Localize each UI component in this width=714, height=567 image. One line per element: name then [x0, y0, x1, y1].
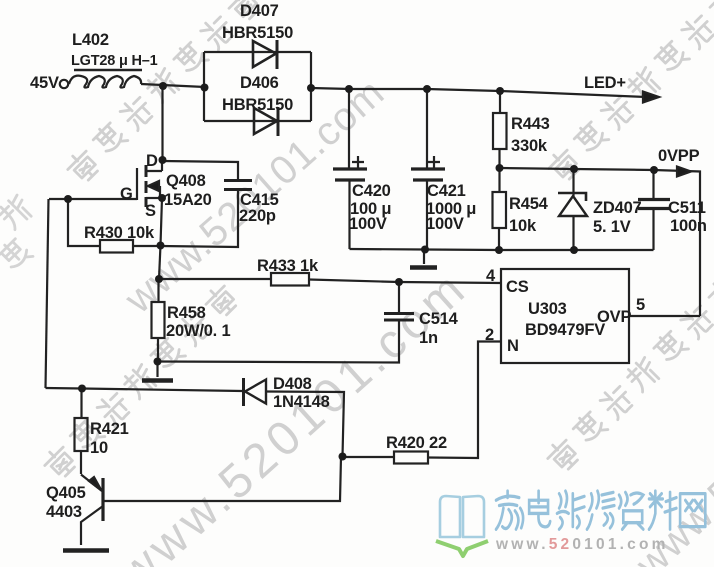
svg-text:4403: 4403	[46, 503, 82, 521]
svg-text:100n: 100n	[670, 217, 707, 235]
wire R420 line	[343, 342, 502, 459]
capacitor C415	[224, 181, 252, 190]
svg-text:CS: CS	[506, 278, 529, 296]
resistor R454	[493, 192, 507, 228]
svg-text:C511: C511	[668, 199, 706, 217]
wire inductor to drain node	[141, 84, 205, 87]
node 45V input terminal	[60, 80, 68, 88]
wire left rail (gate drive)	[46, 199, 49, 388]
junction R458 bottom	[154, 358, 162, 366]
resistor R454 leads	[498, 168, 501, 250]
resistor R420	[394, 452, 428, 464]
wire rail C420 to C421	[349, 88, 427, 90]
ground under Q405	[63, 548, 109, 553]
diode pair loop frame	[204, 52, 311, 121]
zener ZD407	[558, 170, 587, 251]
diode D407	[253, 40, 277, 69]
wire source node down to R433 node	[159, 245, 161, 279]
svg-text:HBR5150: HBR5150	[222, 96, 293, 114]
svg-text:R458: R458	[167, 304, 206, 322]
svg-text:HBR5150: HBR5150	[222, 24, 293, 42]
OVPP arrowhead	[677, 167, 691, 177]
svg-text:U303: U303	[528, 300, 567, 318]
junction source node	[158, 194, 166, 202]
wire rail to diode-pair right node	[311, 88, 351, 89]
capacitor C514	[384, 314, 414, 321]
resistor R443 leads	[498, 91, 501, 168]
resistor R443	[493, 113, 507, 149]
svg-text:R421: R421	[90, 420, 129, 438]
svg-text:ZD407: ZD407	[593, 199, 642, 217]
svg-text:C514: C514	[419, 310, 459, 328]
wire drain vertical	[161, 86, 163, 160]
resistor R458 leads	[157, 279, 160, 362]
svg-text:OVP: OVP	[597, 308, 631, 326]
wire CS line R433 to pin 4	[159, 279, 501, 283]
svg-text:100V: 100V	[349, 215, 387, 233]
svg-text:10: 10	[90, 439, 108, 457]
svg-text:330k: 330k	[511, 137, 548, 155]
resistor R433	[271, 273, 309, 286]
logo url text	[495, 536, 669, 553]
junction R430-C415-source	[157, 242, 165, 250]
watermark row: chinese bottom-left	[41, 282, 241, 482]
svg-text:10k: 10k	[509, 217, 537, 235]
wire rail C421 to R443	[427, 89, 500, 91]
wire gate node stub to R430	[68, 199, 100, 246]
svg-text:R420 22: R420 22	[386, 434, 447, 452]
svg-text:4: 4	[486, 267, 496, 285]
wire source down to R430 node	[161, 198, 163, 245]
svg-text:45V: 45V	[30, 74, 59, 92]
resistor R458	[152, 302, 165, 338]
capacitor C421	[411, 156, 445, 180]
svg-text:5. 1V: 5. 1V	[593, 218, 631, 236]
svg-text:220p: 220p	[239, 207, 276, 225]
diode D408	[244, 378, 267, 406]
LED+ arrowhead	[643, 92, 659, 103]
svg-text:15A20: 15A20	[164, 191, 212, 209]
svg-text:N: N	[507, 337, 519, 355]
wire OVP pin5 line	[629, 315, 700, 317]
junction R443 top	[496, 87, 504, 95]
svg-text:D: D	[146, 152, 158, 170]
svg-text:R454: R454	[509, 195, 549, 213]
capacitor C421 leads	[426, 89, 428, 249]
logo chinese title (stylized)	[496, 491, 705, 529]
watermark row: chinese bottom-right	[544, 275, 714, 475]
junction R420-D408-Q405	[339, 453, 347, 461]
resistor R421 leads	[80, 389, 83, 475]
logo book green base	[436, 541, 488, 556]
svg-text:R433 1k: R433 1k	[257, 257, 319, 275]
mosfet Q408	[137, 160, 162, 207]
svg-text:R443: R443	[511, 115, 550, 133]
diode D406	[254, 107, 278, 136]
svg-text:R430 10k: R430 10k	[84, 224, 155, 242]
wire rail R443 to LED+ arrow	[500, 91, 646, 97]
svg-text:G: G	[120, 185, 133, 203]
svg-text:LED+: LED+	[584, 74, 626, 92]
wire R430 to source node	[133, 245, 161, 247]
wire bottom-left horizontal to D408	[46, 388, 243, 391]
junction R433 tap	[155, 275, 163, 283]
inductor L402	[69, 76, 141, 88]
ground under C421	[410, 250, 437, 268]
wire D408 anode to R420 node	[266, 392, 344, 457]
svg-text:20W/0. 1: 20W/0. 1	[166, 322, 230, 340]
capacitor C415 loop wires	[161, 161, 239, 247]
wire gate line	[49, 198, 137, 200]
junction diode pair left	[201, 84, 209, 92]
svg-text:1N4148: 1N4148	[273, 393, 330, 411]
junction zener bottom	[570, 246, 578, 254]
svg-text:Q405: Q405	[46, 484, 86, 502]
svg-text:C421: C421	[427, 182, 466, 200]
watermark row: chinese top-left	[64, 0, 264, 185]
svg-text:D407: D407	[240, 2, 279, 20]
svg-text:2: 2	[485, 326, 494, 344]
junction R443-R454	[496, 164, 504, 172]
label underline for L402 value	[74, 69, 142, 72]
resistor R430	[100, 240, 133, 253]
bottom ground rail	[350, 249, 654, 250]
junction C421 bottom ground	[421, 246, 429, 254]
junction C420 top	[345, 85, 353, 93]
svg-text:C420: C420	[352, 182, 391, 200]
junction C421 top	[423, 85, 431, 93]
watermark row: chinese top-right	[545, 0, 714, 184]
svg-text:1n: 1n	[419, 329, 438, 347]
junction rail-drain	[159, 82, 167, 90]
junction C511 top	[650, 166, 658, 174]
transistor Q405	[81, 457, 341, 545]
svg-text:5: 5	[636, 296, 645, 314]
svg-text:D408: D408	[273, 375, 312, 393]
svg-text:Q408: Q408	[166, 172, 206, 190]
capacitor C420	[333, 156, 367, 180]
svg-text:LGT28 μ H–1: LGT28 μ H–1	[71, 53, 158, 69]
svg-text:L402: L402	[72, 31, 109, 49]
junction diode pair right	[307, 84, 315, 92]
capacitor C514 leads	[158, 282, 400, 363]
junction C514 top	[395, 278, 403, 286]
junction gate node	[64, 195, 72, 203]
logo book icon	[440, 496, 484, 537]
watermark row: chinese left-edge partial	[0, 237, 33, 274]
resistor R421	[75, 418, 88, 451]
capacitor C511 leads	[652, 170, 654, 250]
junction drain node	[159, 156, 167, 164]
svg-text:100V: 100V	[426, 215, 464, 233]
svg-text:www.520101.com: www.520101.com	[495, 536, 669, 553]
capacitor C511	[638, 200, 670, 209]
svg-text:BD9479FV: BD9479FV	[525, 321, 605, 339]
junction R421 top	[78, 385, 86, 393]
svg-text:0VPP: 0VPP	[658, 147, 700, 165]
ground under R458	[142, 362, 173, 381]
wire OVPP line	[500, 168, 701, 316]
junction zener top	[570, 165, 578, 173]
capacitor C420 leads	[348, 89, 351, 249]
junction R454 bottom	[495, 246, 503, 254]
svg-text:D406: D406	[240, 74, 279, 92]
svg-text:S: S	[145, 202, 156, 220]
IC U303 box	[501, 269, 629, 363]
